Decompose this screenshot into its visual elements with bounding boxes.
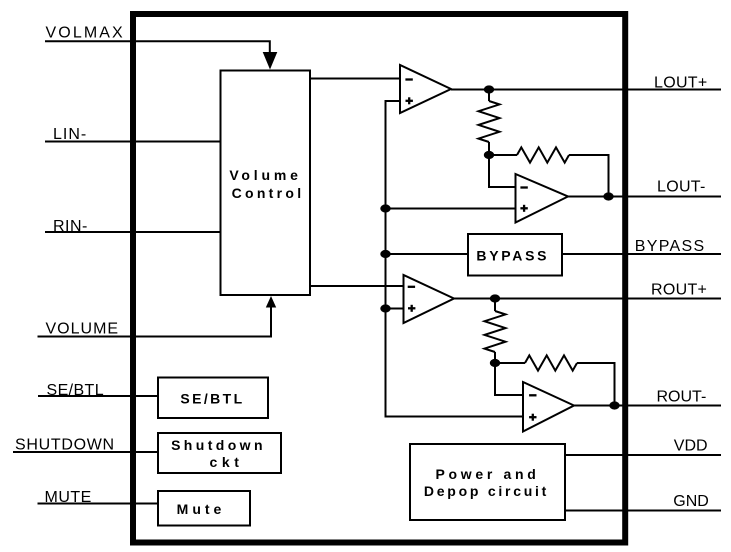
- svg-text:Control: Control: [232, 185, 305, 201]
- svg-text:BYPASS: BYPASS: [635, 238, 706, 255]
- svg-text:LIN-: LIN-: [53, 126, 87, 143]
- svg-text:Depop circuit: Depop circuit: [424, 483, 549, 499]
- svg-text:Shutdown: Shutdown: [171, 437, 266, 453]
- svg-text:GND: GND: [673, 493, 709, 510]
- svg-text:SE/BTL: SE/BTL: [47, 382, 105, 399]
- svg-text:VOLUME: VOLUME: [46, 321, 120, 338]
- svg-text:LOUT-: LOUT-: [657, 179, 706, 196]
- svg-text:VDD: VDD: [674, 438, 708, 455]
- svg-text:Power and: Power and: [435, 466, 539, 482]
- svg-text:MUTE: MUTE: [45, 489, 92, 506]
- svg-text:VOLMAX: VOLMAX: [46, 25, 125, 42]
- svg-text:RIN-: RIN-: [53, 218, 88, 235]
- svg-text:LOUT+: LOUT+: [654, 75, 708, 92]
- svg-text:Mute: Mute: [177, 501, 226, 517]
- svg-text:Volume: Volume: [229, 167, 301, 183]
- svg-text:ROUT+: ROUT+: [651, 282, 707, 299]
- svg-text:ROUT-: ROUT-: [657, 389, 707, 406]
- svg-text:SE/BTL: SE/BTL: [180, 391, 244, 407]
- svg-text:SHUTDOWN: SHUTDOWN: [15, 437, 115, 454]
- svg-text:BYPASS: BYPASS: [476, 247, 549, 263]
- svg-text:ckt: ckt: [209, 454, 243, 470]
